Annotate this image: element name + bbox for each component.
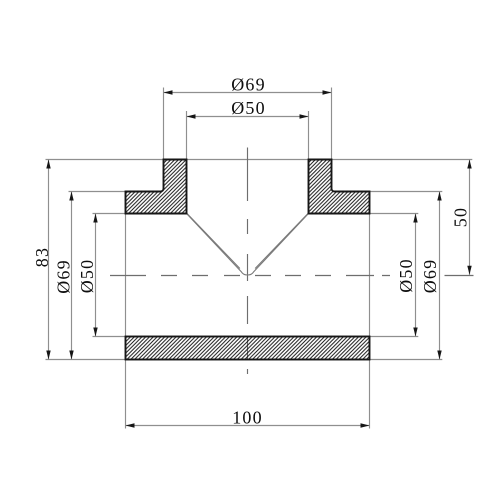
svg-text:50: 50 bbox=[451, 207, 471, 227]
svg-text:Ø50: Ø50 bbox=[231, 98, 266, 118]
svg-text:Ø69: Ø69 bbox=[54, 259, 74, 294]
svg-text:Ø50: Ø50 bbox=[396, 258, 416, 293]
svg-text:Ø69: Ø69 bbox=[231, 74, 266, 94]
svg-text:Ø50: Ø50 bbox=[77, 259, 97, 294]
svg-text:100: 100 bbox=[232, 408, 263, 428]
svg-text:83: 83 bbox=[32, 247, 52, 267]
svg-text:Ø69: Ø69 bbox=[420, 259, 440, 294]
